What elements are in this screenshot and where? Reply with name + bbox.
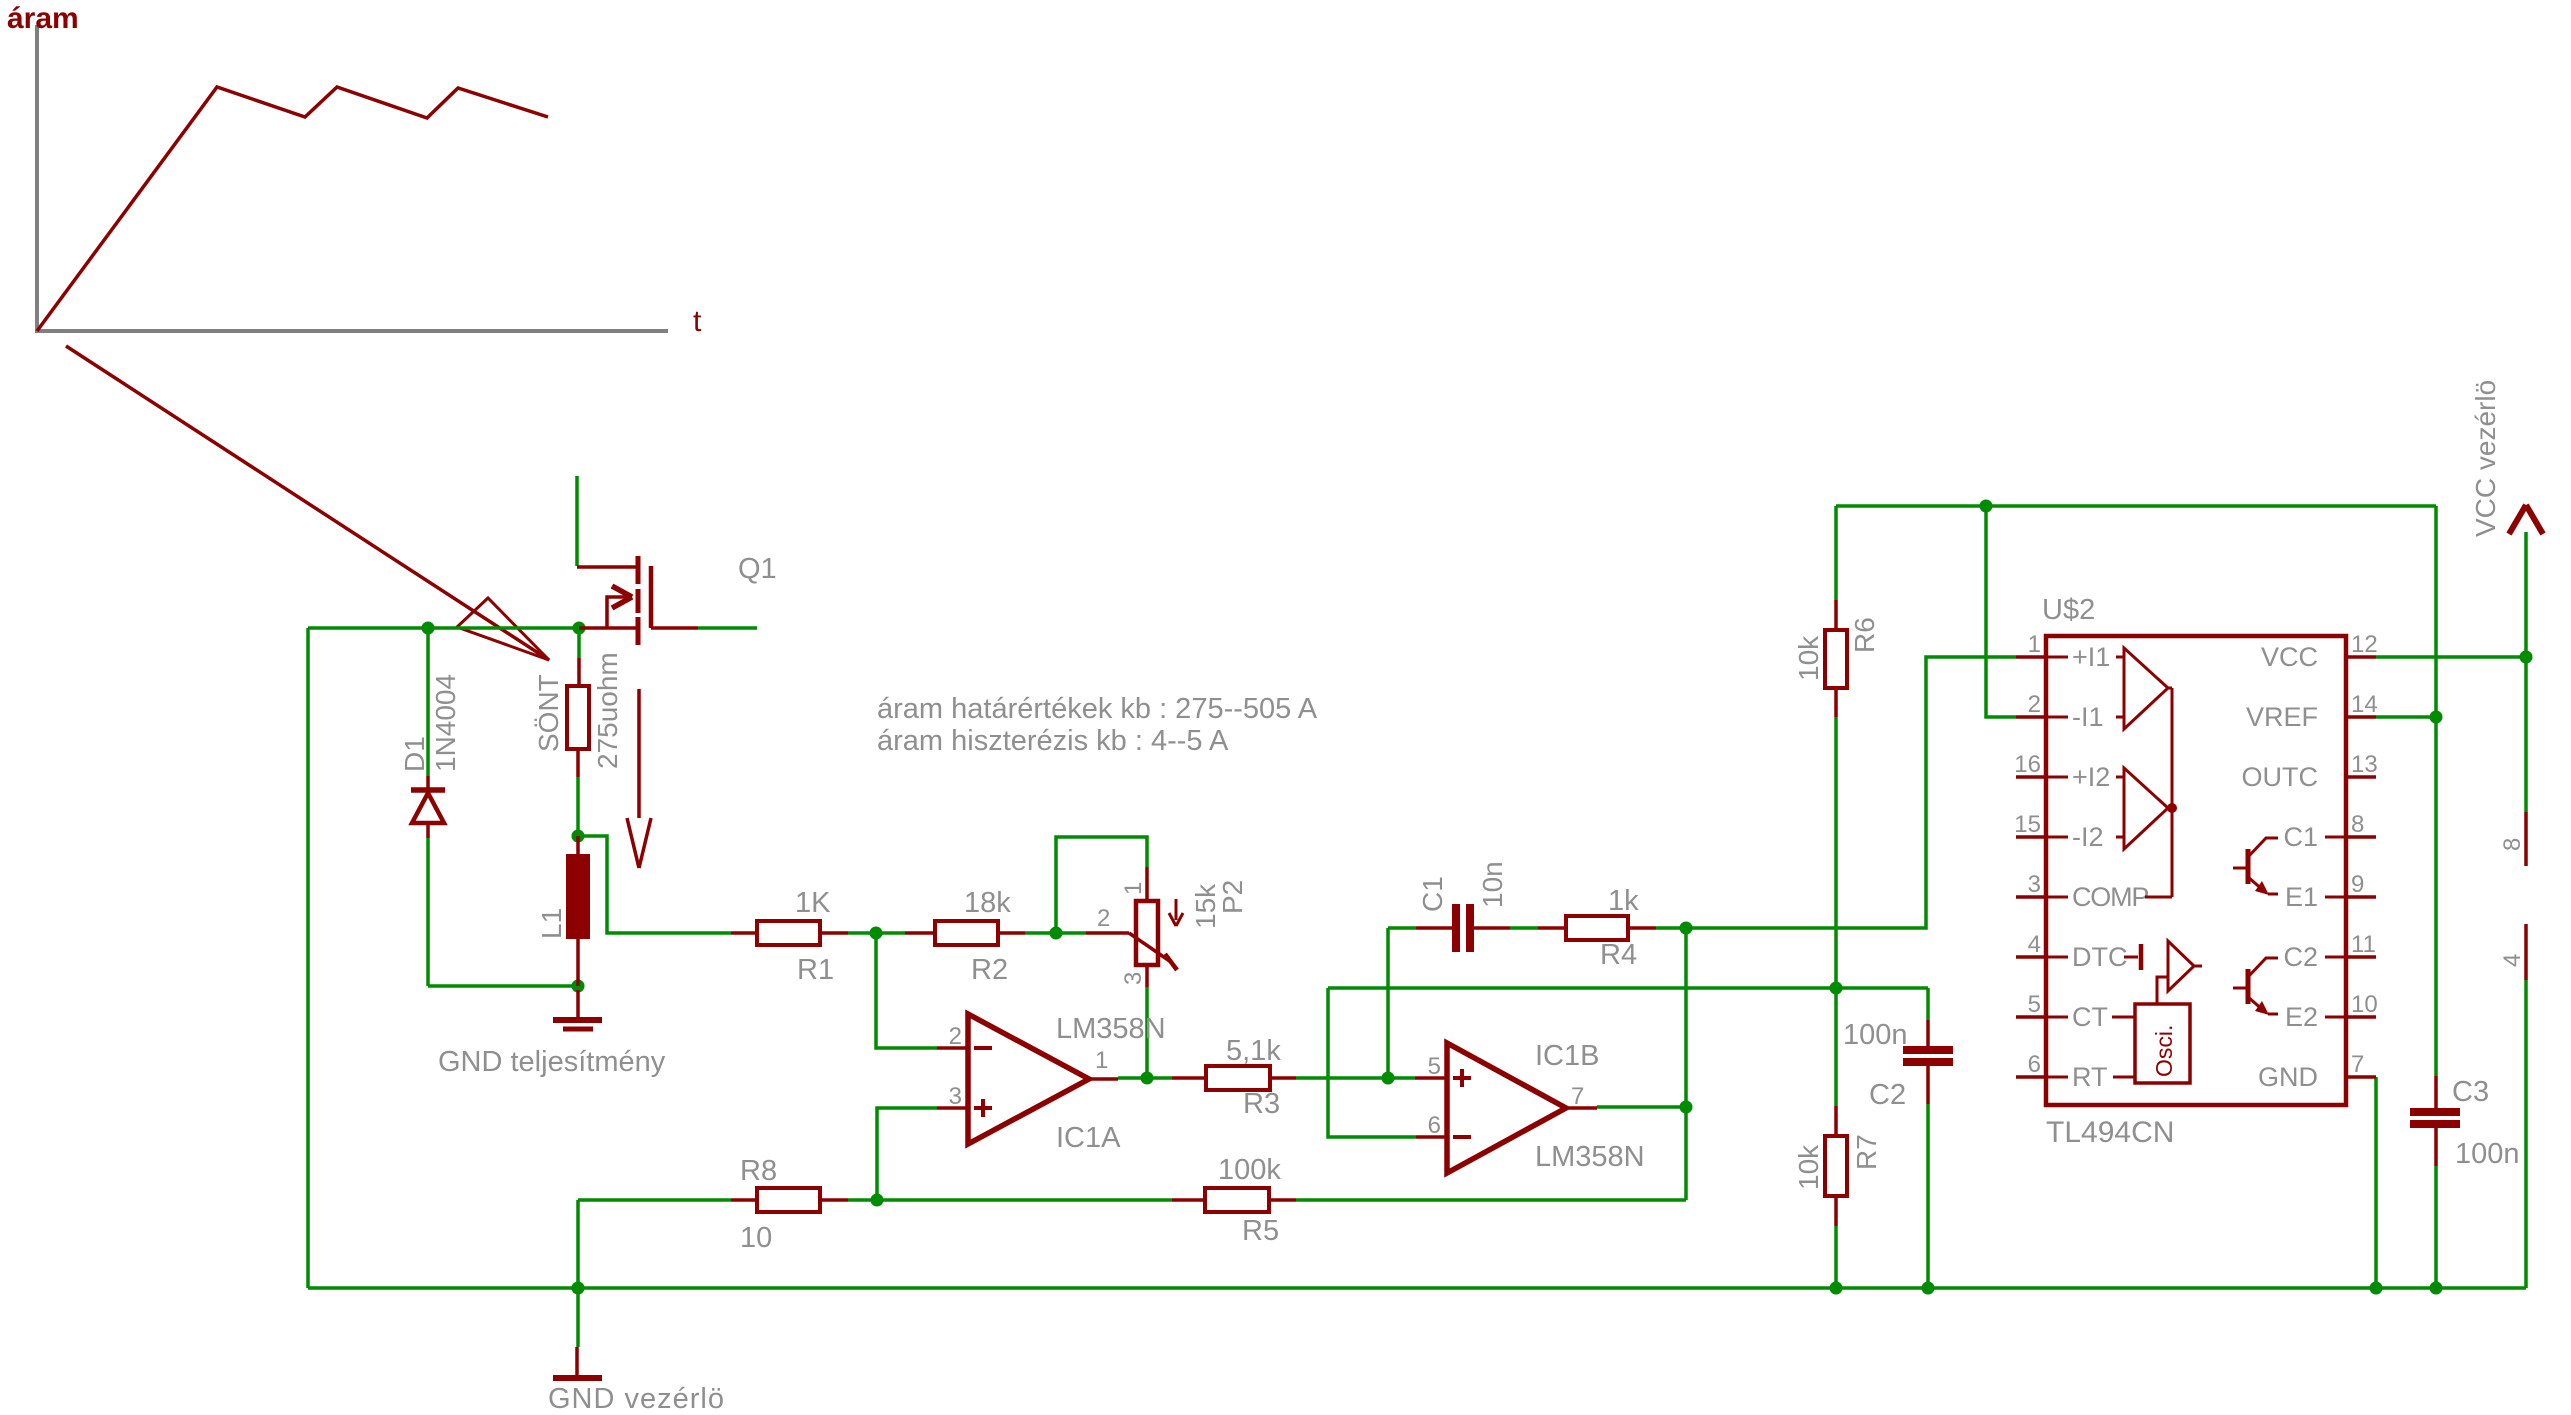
wire C2 bottom bbox=[1926, 1104, 1930, 1288]
svg-text:C2: C2 bbox=[1869, 1079, 1906, 1111]
svg-text:10: 10 bbox=[2351, 991, 2378, 1018]
svg-text:E2: E2 bbox=[2285, 1002, 2318, 1032]
junction GND pin7 bottom bbox=[2370, 1282, 2383, 1295]
wire IC1B minus drop bbox=[1328, 988, 1416, 1137]
svg-text:E1: E1 bbox=[2285, 882, 2318, 912]
wire node to IC1A inverting input bbox=[876, 933, 937, 1048]
wire row F mid bbox=[848, 1198, 1172, 1202]
wire feedback row to IC1B minus bbox=[1328, 986, 1928, 990]
svg-text:Osci.: Osci. bbox=[2151, 1025, 2177, 1077]
junction R1-R2 bbox=[870, 927, 883, 940]
junction shunt-L1 tap bbox=[572, 830, 585, 843]
svg-text:RT: RT bbox=[2072, 1062, 2108, 1092]
wire row F left drop to row G bbox=[576, 1200, 580, 1288]
svg-text:+I1: +I1 bbox=[2072, 642, 2110, 672]
inductor L1 bbox=[566, 836, 590, 986]
transistor Q1 (P-MOSFET) bbox=[577, 556, 698, 645]
svg-text:R2: R2 bbox=[971, 954, 1008, 986]
wire left vertical bbox=[306, 628, 310, 1288]
current direction arrow beside shunt bbox=[627, 689, 651, 868]
pin 3 COMP lead bbox=[2016, 895, 2046, 899]
svg-text:11: 11 bbox=[2351, 931, 2376, 958]
internal transistor Q2 emitter arrowhead bbox=[2255, 1001, 2269, 1015]
internal comparator 1 bbox=[2124, 648, 2168, 729]
wire main row A bbox=[308, 626, 579, 630]
svg-text:P2: P2 bbox=[1217, 880, 1248, 914]
wire IC1A output bbox=[1118, 1076, 1172, 1080]
wire GND pin7 drop bbox=[2374, 1077, 2378, 1288]
junction IC1B output bbox=[1680, 1101, 1693, 1114]
junction R4 output bbox=[1680, 922, 1693, 935]
svg-text:SÖNT: SÖNT bbox=[533, 674, 564, 752]
diode D1 1N4004 bbox=[411, 776, 445, 838]
wire C1 to R4 bbox=[1510, 926, 1538, 930]
svg-text:100n: 100n bbox=[2455, 1138, 2520, 1170]
pin 6 RT lead bbox=[2016, 1075, 2046, 1079]
resistor R2 18k bbox=[905, 921, 1025, 945]
op-amp IC1A bbox=[937, 1014, 1118, 1144]
svg-text:10n: 10n bbox=[1477, 861, 1508, 908]
svg-text:1K: 1K bbox=[795, 887, 831, 919]
svg-text:GND: GND bbox=[2258, 1062, 2318, 1092]
wire right vertical to C3 bbox=[2434, 506, 2438, 1076]
pin 5 CT lead bbox=[2016, 1015, 2046, 1019]
op-amp IC1B bbox=[1415, 1043, 1597, 1173]
resistor SÖNT 275uohm bbox=[567, 658, 589, 777]
ground GND vezérlö bbox=[553, 1347, 602, 1378]
svg-text:4: 4 bbox=[2499, 954, 2526, 967]
svg-text:16: 16 bbox=[2014, 751, 2041, 778]
wire R4 junction down to IC1B output bbox=[1684, 928, 1688, 1107]
pin 16 +I2 lead bbox=[2016, 775, 2046, 779]
annotation arrow shaft bbox=[66, 346, 549, 660]
svg-text:1: 1 bbox=[2028, 631, 2041, 658]
capacitor C1 10n bbox=[1416, 904, 1510, 952]
svg-text:áram: áram bbox=[7, 2, 79, 35]
internal comparator output junction dot bbox=[2167, 803, 2177, 813]
resistor R4 1k bbox=[1538, 916, 1656, 940]
wire R7 top bbox=[1834, 988, 1838, 1106]
svg-text:áram hiszterézis kb : 4--5 A: áram hiszterézis kb : 4--5 A bbox=[877, 725, 1229, 757]
wire R1 to R2 bbox=[848, 931, 905, 935]
internal RT lead to oscillator bbox=[2113, 1076, 2135, 1079]
svg-text:3: 3 bbox=[2028, 871, 2041, 898]
svg-text:10k: 10k bbox=[1793, 635, 1824, 681]
svg-text:-I1: -I1 bbox=[2072, 702, 2104, 732]
svg-text:100k: 100k bbox=[1218, 1154, 1281, 1186]
svg-text:R7: R7 bbox=[1851, 1134, 1882, 1170]
wire R7 bottom bbox=[1834, 1226, 1838, 1288]
junction R3-C1 bbox=[1382, 1072, 1395, 1085]
IC1 power pin 8 stub bbox=[2524, 812, 2528, 866]
svg-text:LM358N: LM358N bbox=[1535, 1141, 1645, 1173]
svg-text:OUTC: OUTC bbox=[2242, 762, 2319, 792]
junction C3 bottom bbox=[2430, 1282, 2443, 1295]
svg-text:2: 2 bbox=[949, 1023, 962, 1050]
resistor R1 1K bbox=[731, 921, 848, 945]
svg-text:R3: R3 bbox=[1243, 1088, 1280, 1120]
resistor R5 100k bbox=[1172, 1188, 1296, 1212]
internal DTC buffer output lead bbox=[2194, 965, 2202, 968]
svg-text:GND vezérlö: GND vezérlö bbox=[548, 1383, 725, 1415]
wire R3 to IC1B plus bbox=[1296, 1076, 1415, 1080]
graph current waveform bbox=[37, 87, 548, 331]
wire C1 node down bbox=[1386, 928, 1390, 1078]
wire P2 pin3 down bbox=[1145, 987, 1149, 1078]
pin 10 E2 lead bbox=[2346, 1015, 2376, 1019]
wire Q1 drain stub top bbox=[575, 476, 579, 566]
svg-text:CT: CT bbox=[2072, 1002, 2108, 1032]
wire R6 top bbox=[1834, 506, 1838, 600]
internal CT lead to oscillator bbox=[2112, 1016, 2135, 1019]
svg-text:18k: 18k bbox=[964, 887, 1011, 919]
capacitor C3 100n bbox=[2410, 1076, 2460, 1166]
wire shunt to L1 bbox=[576, 777, 580, 836]
wire C3 bottom bbox=[2434, 1166, 2438, 1288]
svg-text:C1: C1 bbox=[1417, 876, 1448, 912]
pin 11 C2 lead bbox=[2346, 955, 2376, 959]
resistor R3 5,1k bbox=[1172, 1066, 1296, 1090]
wire -I1 column bbox=[1986, 506, 2016, 717]
svg-text:1N4004: 1N4004 bbox=[430, 674, 461, 772]
wire GND vezérlö stub bbox=[576, 1288, 580, 1347]
wire shunt top bbox=[577, 628, 581, 658]
wire row F right bbox=[1296, 1198, 1686, 1202]
svg-text:DTC: DTC bbox=[2072, 942, 2128, 972]
svg-text:3: 3 bbox=[1120, 972, 1147, 985]
junction VCC pin12 row bbox=[2520, 651, 2533, 664]
svg-text:10: 10 bbox=[740, 1222, 772, 1254]
wire VCC arrow shaft bbox=[2524, 532, 2528, 657]
svg-text:GND teljesítmény: GND teljesítmény bbox=[438, 1046, 666, 1078]
svg-text:L1: L1 bbox=[536, 908, 567, 939]
junction row G GND vezérlö bbox=[572, 1282, 585, 1295]
svg-text:9: 9 bbox=[2351, 871, 2364, 898]
svg-text:1: 1 bbox=[1095, 1047, 1108, 1074]
pin 14 VREF lead bbox=[2346, 715, 2376, 719]
wire row F R8 R5 bbox=[578, 1198, 731, 1202]
internal pin stubs right side bbox=[2325, 837, 2346, 1017]
svg-text:100n: 100n bbox=[1843, 1019, 1908, 1051]
junction L1 bottom bbox=[572, 980, 585, 993]
svg-text:IC1B: IC1B bbox=[1535, 1040, 1599, 1072]
wire IC1 power pin8 stub bbox=[2524, 657, 2528, 812]
svg-text:1: 1 bbox=[1120, 882, 1147, 895]
svg-text:7: 7 bbox=[2351, 1051, 2364, 1078]
resistor R8 10 bbox=[731, 1188, 848, 1212]
svg-text:-I2: -I2 bbox=[2072, 822, 2104, 852]
svg-text:2: 2 bbox=[2028, 691, 2041, 718]
ground GND teljesítmény bbox=[553, 990, 602, 1029]
wire IC1B output to row F bbox=[1684, 1107, 1688, 1200]
pin 9 E1 lead bbox=[2346, 895, 2376, 899]
svg-text:+I2: +I2 bbox=[2072, 762, 2110, 792]
wire Q1 gate stub right bbox=[698, 626, 757, 630]
svg-text:t: t bbox=[693, 305, 702, 338]
internal oscillator Osci box bbox=[2135, 1004, 2190, 1083]
graph axis bbox=[37, 25, 668, 331]
wire P2 top loop bbox=[1056, 837, 1147, 933]
internal transistor Q C1/E1 bbox=[2233, 838, 2278, 894]
svg-text:12: 12 bbox=[2351, 631, 2378, 658]
pin 7 GND lead bbox=[2346, 1075, 2376, 1079]
wire top supply row bbox=[1836, 504, 2436, 508]
junction R7 bottom bbox=[1830, 1282, 1843, 1295]
junction top supply -I1 bbox=[1980, 500, 1993, 513]
svg-text:8: 8 bbox=[2351, 811, 2364, 838]
junction VREF-C3 column bbox=[2430, 711, 2443, 724]
wire D1 column bottom bbox=[426, 838, 430, 986]
junction shunt top bbox=[573, 622, 586, 635]
wire C1 left bbox=[1388, 926, 1416, 930]
svg-text:14: 14 bbox=[2351, 691, 2378, 718]
internal comparator output net bbox=[2145, 688, 2172, 897]
junction row F feedback bbox=[871, 1194, 884, 1207]
supply arrow VCC vezérlö bbox=[2509, 505, 2543, 534]
svg-text:C3: C3 bbox=[2452, 1076, 2489, 1108]
svg-text:5: 5 bbox=[1428, 1053, 1441, 1080]
internal oscillator connection bbox=[2157, 977, 2168, 1004]
resistor R7 10k bbox=[1825, 1106, 1847, 1226]
svg-text:1k: 1k bbox=[1608, 885, 1639, 917]
svg-text:IC1A: IC1A bbox=[1056, 1122, 1121, 1154]
wire R4 to TL494 +I1 bbox=[1656, 657, 2016, 928]
pin 13 OUTC lead bbox=[2346, 775, 2376, 779]
svg-text:C2: C2 bbox=[2283, 942, 2318, 972]
wire R2 to P2 wiper bbox=[1025, 931, 1086, 935]
junction R2-P2 bbox=[1050, 927, 1063, 940]
wire R6 bottom to node bbox=[1834, 717, 1838, 988]
internal comparator 2 bbox=[2124, 768, 2168, 849]
resistor R6 10k bbox=[1825, 600, 1847, 717]
internal transistor Q1 emitter arrowhead bbox=[2255, 881, 2269, 895]
potentiometer P2 adjust arrow bbox=[1169, 899, 1183, 926]
wire VREF pin14 row bbox=[2376, 715, 2436, 719]
svg-text:R6: R6 bbox=[1849, 617, 1880, 653]
svg-text:C1: C1 bbox=[2283, 822, 2318, 852]
svg-text:TL494CN: TL494CN bbox=[2046, 1116, 2174, 1149]
svg-text:10k: 10k bbox=[1793, 1144, 1824, 1190]
svg-text:15: 15 bbox=[2014, 811, 2041, 838]
internal transistor Q C2/E2 bbox=[2233, 958, 2278, 1014]
pin 4 DTC lead bbox=[2016, 955, 2046, 959]
potentiometer P2 15k bbox=[1086, 867, 1177, 987]
svg-text:6: 6 bbox=[1428, 1112, 1441, 1139]
wire L1 tap to R1 bbox=[578, 836, 731, 933]
svg-text:D1: D1 bbox=[399, 736, 430, 772]
svg-text:6: 6 bbox=[2028, 1051, 2041, 1078]
internal DTC comparator input bbox=[2124, 944, 2141, 970]
svg-text:13: 13 bbox=[2351, 751, 2378, 778]
pin 15 -I2 lead bbox=[2016, 835, 2046, 839]
wire IC1B output bbox=[1597, 1105, 1686, 1109]
internal pin stubs left side bbox=[2046, 657, 2068, 1077]
svg-text:VCC vezérlö: VCC vezérlö bbox=[2470, 380, 2501, 537]
wire IC1 power pin4 stub bbox=[2524, 980, 2528, 1288]
pin 1 +I1 lead bbox=[2016, 655, 2046, 659]
svg-text:7: 7 bbox=[1571, 1083, 1584, 1110]
capacitor C2 100n bbox=[1903, 1020, 1953, 1104]
internal DTC buffer triangle bbox=[2168, 941, 2194, 991]
pin 8 C1 lead bbox=[2346, 835, 2376, 839]
svg-text:2: 2 bbox=[1097, 905, 1110, 932]
svg-text:áram határértékek kb : 275--50: áram határértékek kb : 275--505 A bbox=[877, 693, 1318, 725]
svg-text:LM358N: LM358N bbox=[1056, 1013, 1166, 1045]
svg-text:3: 3 bbox=[949, 1083, 962, 1110]
wire bottom row G bbox=[308, 1286, 2526, 1290]
svg-text:U$2: U$2 bbox=[2042, 594, 2095, 626]
svg-text:275uohm: 275uohm bbox=[592, 652, 623, 769]
junction C2 bottom bbox=[1922, 1282, 1935, 1295]
svg-text:8: 8 bbox=[2499, 838, 2526, 851]
svg-text:R5: R5 bbox=[1242, 1215, 1279, 1247]
wire VCC pin12 row bbox=[2376, 655, 2526, 659]
svg-text:5,1k: 5,1k bbox=[1226, 1035, 1281, 1067]
svg-text:4: 4 bbox=[2028, 931, 2041, 958]
wire D1 to L1 bottom horizontal bbox=[428, 984, 578, 988]
svg-text:R1: R1 bbox=[797, 954, 834, 986]
wire C2 column bbox=[1926, 988, 1930, 1020]
wire IC1A noninverting input bbox=[877, 1108, 937, 1200]
junction R6-R7 bbox=[1830, 982, 1843, 995]
svg-text:VREF: VREF bbox=[2246, 702, 2318, 732]
IC1 power pin 4 stub bbox=[2524, 924, 2528, 980]
svg-text:Q1: Q1 bbox=[738, 553, 777, 585]
pin 12 VCC lead bbox=[2346, 655, 2376, 659]
pin 2 -I1 lead bbox=[2016, 715, 2046, 719]
IC U$2 TL494CN box bbox=[2046, 636, 2346, 1105]
junction IC1A output bbox=[1141, 1072, 1154, 1085]
svg-text:VCC: VCC bbox=[2261, 642, 2318, 672]
svg-text:R8: R8 bbox=[740, 1155, 777, 1187]
svg-text:5: 5 bbox=[2028, 991, 2041, 1018]
junction D1 top bbox=[422, 622, 435, 635]
svg-text:COMP: COMP bbox=[2072, 882, 2148, 912]
wire D1 column top bbox=[426, 628, 430, 776]
internal comparator input ticks bbox=[2116, 657, 2124, 837]
annotation arrow head bbox=[457, 598, 549, 660]
svg-text:R4: R4 bbox=[1600, 939, 1637, 971]
